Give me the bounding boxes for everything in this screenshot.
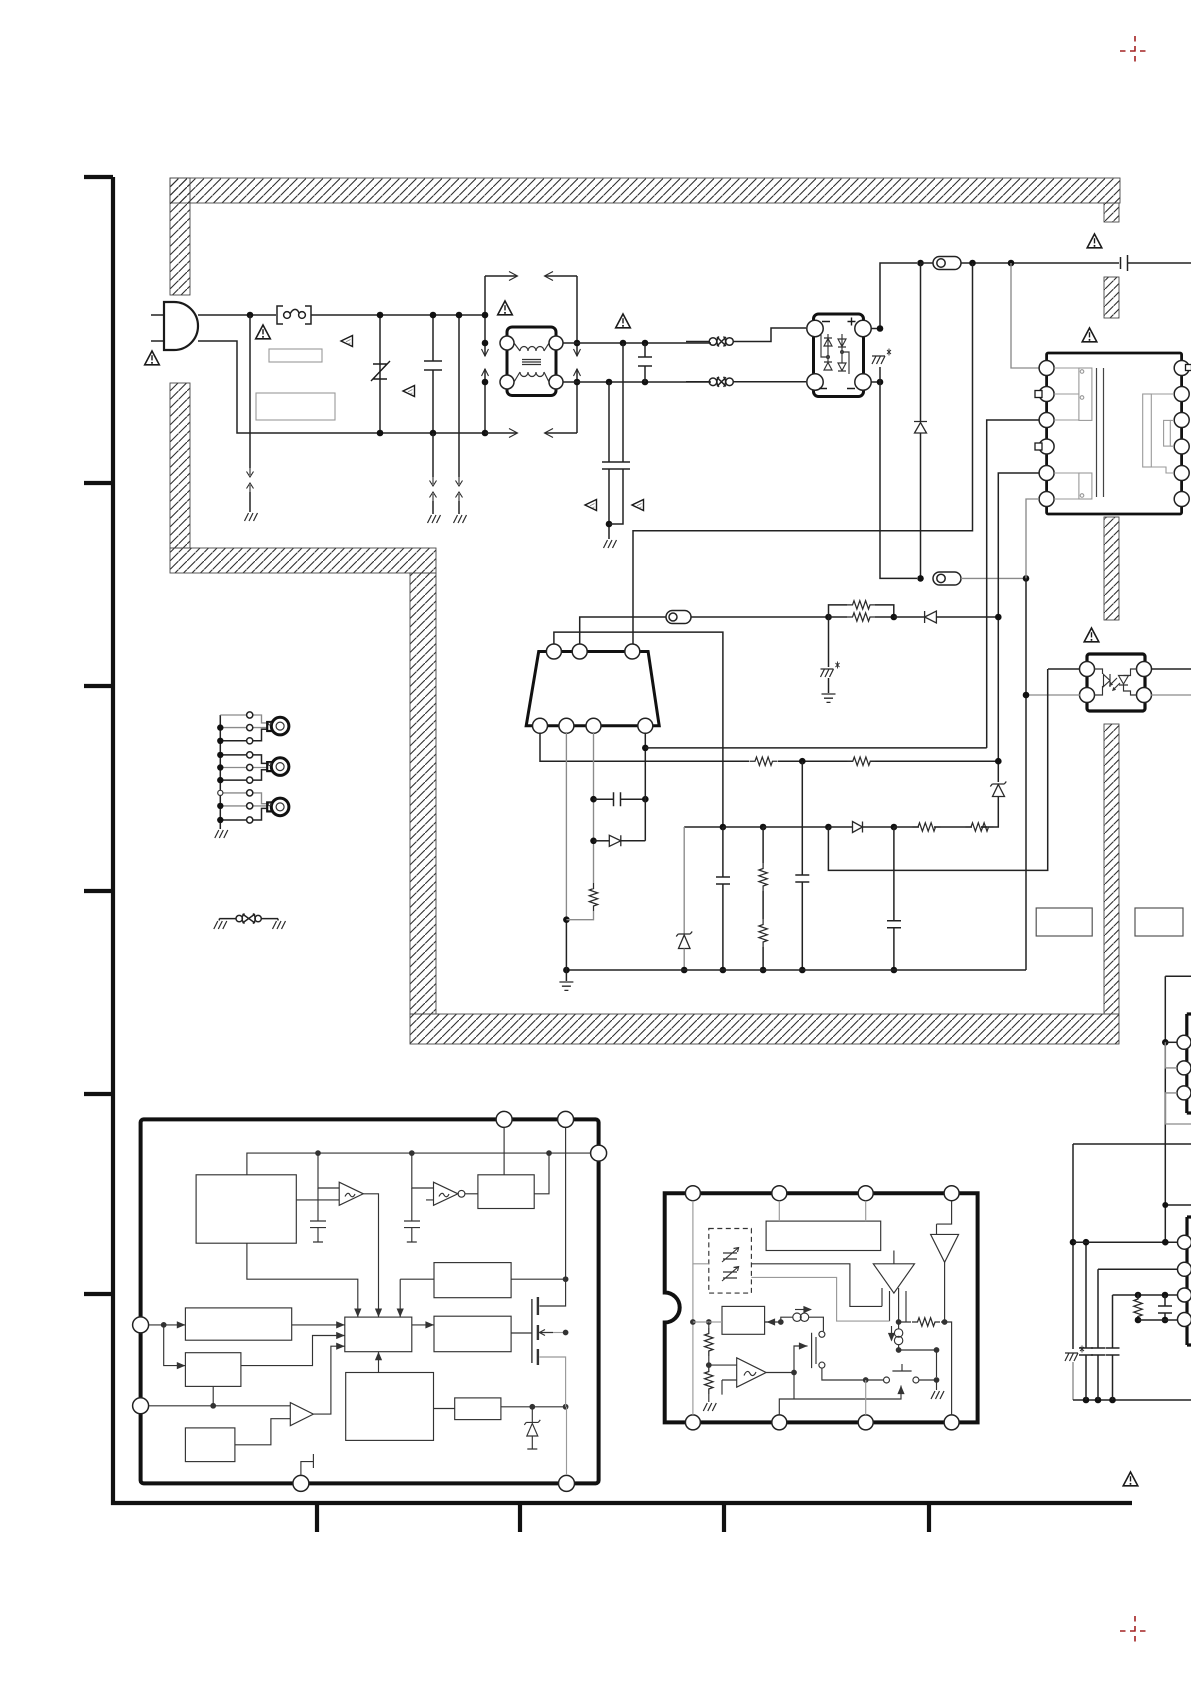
U1 input block left	[185, 1308, 291, 1340]
cap branch x893.9 to bus	[887, 827, 901, 970]
cap branch x722.9 to bus	[716, 827, 730, 970]
barrier band: bottom	[410, 1014, 1119, 1044]
U1 comparator 1	[339, 1182, 363, 1205]
bridge + output up to top rail	[871, 263, 917, 329]
U1 PWM block	[345, 1317, 412, 1352]
STR bottom pin2 riser to bus and earth	[565, 733, 567, 918]
U2 top register block	[766, 1221, 881, 1250]
U2 buffer triangle top right	[931, 1234, 959, 1262]
oval fusible resistor FR1	[933, 257, 961, 270]
filter cap x1112.5	[1106, 1295, 1120, 1400]
bottom secondary bus y1400	[1073, 1399, 1191, 1401]
T1 primary windings left	[1054, 368, 1092, 499]
U2 divider resistors	[708, 1322, 710, 1402]
U1 osc to PWM riser	[247, 1243, 358, 1317]
U2 current source	[781, 1317, 793, 1322]
label box small	[269, 349, 322, 362]
warning bottom right	[1123, 1472, 1138, 1486]
U2 sense block wiring	[751, 1264, 882, 1307]
U1 reference amp	[149, 1405, 291, 1407]
barrier band: left upper piece	[170, 178, 190, 295]
optocoupler PC1	[1087, 654, 1145, 711]
jack C rows	[220, 793, 269, 804]
wire C1 down + spark gap + ground	[432, 433, 434, 477]
ruler tick left y889	[84, 889, 113, 893]
U1 internal supply rail	[247, 1153, 591, 1175]
bridge - output node with hot-ground mark	[871, 381, 880, 383]
ruler tick left y686	[84, 684, 113, 688]
ruler tick left y1093	[84, 1092, 113, 1096]
warning triangle below plug	[145, 351, 160, 365]
primary feed down to T1 pin1	[1011, 263, 1039, 368]
T1 core	[1097, 368, 1104, 497]
series capacitor on top rail at page edge	[1121, 255, 1191, 271]
filter pins	[500, 336, 514, 350]
IC block U2 middle-bottom: body with notch	[665, 1193, 978, 1422]
U1 comparator 1 output riser	[363, 1194, 378, 1317]
line filter L1 body	[507, 327, 556, 396]
U2 pin1 rail	[693, 1201, 709, 1264]
U2 block with arrow input	[722, 1306, 765, 1334]
wire y1242 to regulator box	[1073, 1241, 1178, 1243]
ruler tick bottom x520	[518, 1503, 522, 1532]
T1 pin6 wire to switch node	[1026, 499, 1039, 578]
zener on x998	[990, 782, 1006, 797]
open triangle markers at Y-caps	[585, 500, 597, 511]
label box mid right B	[1135, 908, 1183, 936]
open triangle marker 2	[403, 386, 415, 397]
ground chain below node 828.5	[828, 617, 830, 667]
X-capacitor C1	[424, 315, 442, 433]
chassis ground x250	[245, 513, 258, 521]
T1 pin3 wire to feedback	[987, 420, 1039, 748]
divider R+R branch x763 to bus	[762, 827, 764, 970]
RC pair on y1295/y1320	[1137, 1295, 1139, 1320]
warning above optocoupler	[1084, 628, 1099, 642]
fuse F1	[277, 306, 311, 324]
U1 protection block	[346, 1373, 434, 1441]
connector group: vertical bus	[219, 715, 221, 829]
regulator rail x1073 down	[1072, 1144, 1074, 1349]
warning above filter	[498, 301, 513, 315]
registration mark bottom right	[1120, 1616, 1150, 1646]
filter cap x1086	[1079, 1242, 1093, 1400]
regulator IC partial box bottom right	[1187, 1217, 1191, 1345]
filter cap x1098	[1091, 1269, 1105, 1400]
top rail node x920	[917, 260, 924, 267]
IC block U1 bottom-left: body	[141, 1119, 599, 1483]
jack B (RCA)	[267, 762, 274, 771]
warning triangle right of fuse	[256, 325, 271, 339]
U1 comparator 2	[434, 1182, 458, 1205]
zener branch x684 to bus	[683, 827, 685, 934]
warning right of filter	[616, 314, 631, 328]
line filter right riser	[576, 276, 578, 356]
wire y1269	[1098, 1268, 1178, 1270]
wire plug bottom to bottom rail	[198, 341, 485, 433]
ruler tick bottom x317	[315, 1503, 319, 1532]
registration mark top right	[1120, 36, 1150, 66]
feedback line y747.9 to T1 pin3 riser	[645, 747, 986, 749]
label box mid right A	[1036, 908, 1092, 936]
diode between pin3 and pin4 risers	[594, 840, 610, 842]
U2 dashed sense block	[709, 1229, 752, 1294]
U1 oscillator block	[196, 1175, 296, 1243]
STR bottom pin4 riser	[644, 733, 646, 841]
line filter L1 left riser	[484, 276, 486, 356]
Y-capacitor C3	[602, 382, 616, 539]
ruler tick bottom x929	[927, 1503, 931, 1532]
filter bottom bypass loop with gap arrows	[485, 432, 577, 434]
filter top bypass loop with gap arrows	[485, 275, 577, 277]
U2 feedback bottom run	[779, 1386, 901, 1415]
line x459 top rail to ground via spark gap	[458, 315, 460, 477]
U1 drive rail from pin2	[565, 1127, 567, 1279]
U2 error amp triangle	[873, 1264, 914, 1293]
jack B rows	[220, 755, 269, 764]
varistor Z1	[379, 315, 381, 433]
U1 zener	[524, 1407, 540, 1449]
ruler tick top-left	[84, 175, 113, 179]
T1 winding polarity squares	[1035, 391, 1042, 398]
oval fusible resistor FR2	[933, 572, 961, 585]
STR bottom pin1 to divider line y761	[540, 733, 998, 761]
node junction at x250 top rail	[247, 312, 254, 319]
filter windings and core	[514, 343, 549, 382]
ruler tick left y1298	[84, 1292, 113, 1296]
isolation barrier hatched band: top	[170, 178, 1120, 1044]
diode pointing left on y617	[894, 616, 925, 618]
barrier band: step horizontal	[170, 548, 436, 573]
fusible link top	[709, 337, 733, 347]
barrier band: right pieces	[1104, 203, 1119, 222]
barrier band: step vertical	[410, 573, 436, 1014]
U2 switch	[884, 1377, 890, 1383]
STR bottom pin3 riser with resistor	[593, 733, 595, 883]
ruler tick bottom x724	[722, 1503, 726, 1532]
T1 transformer body	[1047, 353, 1182, 514]
jack A (RCA)	[267, 722, 274, 731]
T1 secondary winding right	[1143, 394, 1174, 473]
top rail fuse to filter	[311, 314, 485, 316]
wire plug to fuse (top line)	[198, 314, 276, 316]
warning above series cap	[1087, 234, 1102, 248]
U1 MOSFET	[539, 1279, 565, 1306]
page ruler bottom line	[111, 1501, 1132, 1505]
cap branch x802 to bus	[795, 761, 809, 970]
line y1144	[1073, 1143, 1191, 1145]
spark gap under x250	[247, 468, 254, 492]
snubber diode D2 on x920	[920, 263, 922, 422]
parallel resistor pair R-R	[829, 605, 894, 617]
T1 pin5 wire down	[998, 473, 1039, 782]
AC plug P1	[151, 315, 164, 341]
T1 right pins	[1174, 361, 1189, 376]
page ruler left line	[111, 177, 115, 1505]
fusible link bottom	[709, 377, 733, 387]
optocoupler internals	[1094, 669, 1137, 695]
U2 small MOSFET	[812, 1333, 816, 1368]
output rails of filter	[563, 343, 711, 382]
jack C (RCA)	[267, 802, 274, 811]
U2 vertical current source	[894, 1329, 902, 1337]
bridge polarity marks	[819, 318, 856, 389]
bridge internal diodes	[821, 334, 849, 374]
X-capacitor C2 after filter	[638, 343, 652, 382]
wire y1295	[1113, 1294, 1178, 1296]
hot ground bus y970	[566, 969, 1026, 971]
Y-capacitor C4	[609, 343, 630, 524]
minus rail down to oval fuse line	[880, 382, 917, 578]
open triangle marker 1	[341, 336, 353, 347]
chassis link jumper between grounds	[219, 918, 236, 920]
T1 left pins	[1039, 361, 1054, 376]
bridge rectifier D1	[814, 314, 864, 397]
T2 output transformer partial box	[1187, 1014, 1191, 1113]
cap between pin3 and pin4 risers	[594, 792, 646, 806]
optocoupler wires	[1048, 668, 1080, 670]
U1 driver block	[434, 1316, 511, 1352]
STR regulator IC1 (trapezoid hybrid)	[526, 652, 659, 726]
secondary output line y977	[1165, 975, 1191, 977]
feedback line y827 with resistors and diode	[684, 826, 723, 828]
warning above T1	[1082, 328, 1097, 342]
U1 bottom pin2 riser	[566, 1407, 568, 1475]
wire x250 down to spark gap	[249, 315, 251, 468]
STR pin wire top1 long loop	[554, 632, 723, 827]
U1 bottom pin1 ground	[301, 1454, 314, 1475]
+ rail riser to y530 line	[633, 263, 973, 644]
jack A rows	[220, 715, 269, 723]
STR pin top2 via oval fuse FR3	[580, 617, 666, 644]
U2 right resistor	[899, 1321, 945, 1323]
opto drive loop from node 828	[828, 669, 1047, 870]
barrier band: left lower piece	[170, 383, 190, 548]
line y1205	[1165, 1204, 1191, 1206]
U1 logic block top-right	[478, 1175, 534, 1209]
label box large	[256, 393, 335, 420]
U1 block row mid-right	[434, 1263, 511, 1298]
ruler tick left y483	[84, 481, 113, 485]
U2 hysteresis comparator	[737, 1358, 766, 1387]
